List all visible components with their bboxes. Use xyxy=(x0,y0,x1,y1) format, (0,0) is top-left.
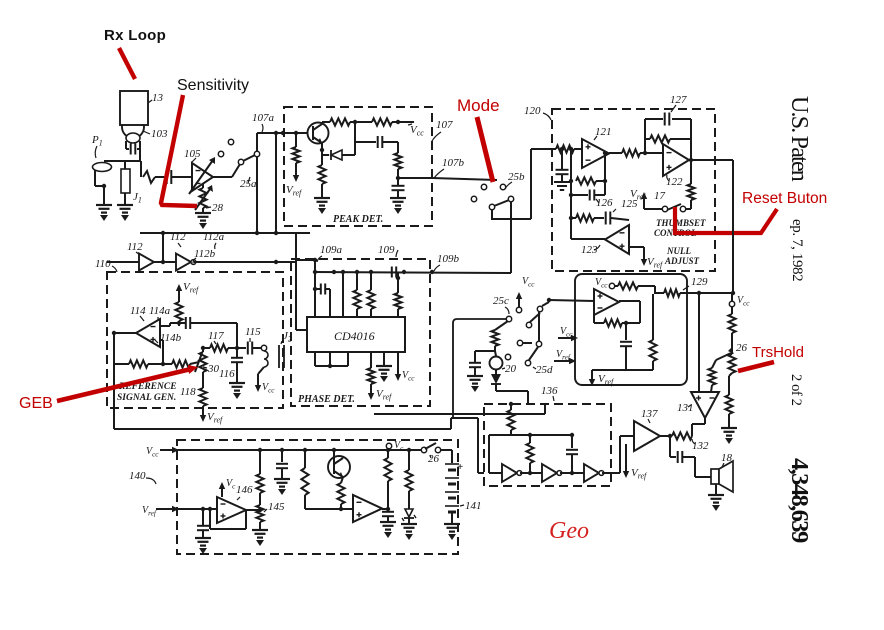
chip pin up 3 xyxy=(342,272,344,317)
Vref arrow 129 xyxy=(591,373,593,382)
red leader line from Rx Loop to loop antenna xyxy=(119,48,135,79)
svg-text:26: 26 xyxy=(428,453,440,465)
feedback resistor 122 xyxy=(645,138,650,140)
pot 30 wiper arrow xyxy=(195,353,202,372)
wire xyxy=(731,333,733,354)
wire xyxy=(383,141,398,143)
svg-text:120: 120 xyxy=(524,105,541,117)
svg-text:122: 122 xyxy=(666,176,683,188)
svg-text:137: 137 xyxy=(641,408,658,420)
jack J2 bracket xyxy=(278,345,280,368)
diode D107 xyxy=(322,154,329,156)
resistor 117 xyxy=(203,347,210,349)
resistor 118 xyxy=(202,372,204,388)
rounded box 129 xyxy=(575,274,687,385)
wire with break squiggle to amp xyxy=(140,161,142,177)
wire 25a up to 107a node xyxy=(256,133,258,151)
wire Vref to 146 xyxy=(177,508,217,510)
red leader TrsHold to pot 26 xyxy=(738,362,774,371)
pot 30 xyxy=(202,348,204,352)
resistor column b xyxy=(304,450,306,468)
left chip wire xyxy=(296,329,307,331)
bus to 136 xyxy=(374,413,545,415)
svg-text:125: 125 xyxy=(621,198,638,210)
bottom row resistor 1 xyxy=(114,363,129,365)
svg-text:140: 140 xyxy=(129,470,146,482)
jack coil xyxy=(261,345,266,350)
wire out of 136 xyxy=(602,472,620,474)
svg-text:Sensitivity: Sensitivity xyxy=(177,77,249,94)
switch 26 battery xyxy=(421,447,426,452)
wire node to 129 xyxy=(549,300,594,301)
storage capacitor xyxy=(392,185,405,187)
cap 109b xyxy=(391,267,393,278)
svg-text:141: 141 xyxy=(465,500,482,512)
Vref arrow peak det xyxy=(295,163,297,178)
svg-text:145: 145 xyxy=(268,501,285,513)
wire amp out xyxy=(213,176,232,178)
chip pin up 2 xyxy=(329,289,331,317)
wire 123 output to rail xyxy=(571,238,605,240)
node at P1 ground xyxy=(102,184,106,188)
wire 123 plus input xyxy=(629,246,644,248)
Vcc bus in 140 xyxy=(177,449,424,451)
cap column xyxy=(281,450,283,462)
shunt capacitor xyxy=(469,362,481,364)
svg-text:112b: 112b xyxy=(194,248,216,260)
lower resistor 129 xyxy=(652,294,654,340)
red leader Mode to switch 25b xyxy=(477,117,493,182)
svg-text:18: 18 xyxy=(721,452,733,464)
input wire to 121 xyxy=(531,148,556,150)
pot 26 resistor xyxy=(728,354,735,373)
switch 25c pole xyxy=(506,316,511,321)
svg-text:26: 26 xyxy=(736,342,748,354)
wire xyxy=(350,121,372,123)
svg-text:110: 110 xyxy=(95,258,111,270)
wire to P1 plug xyxy=(139,149,141,161)
left rail down xyxy=(113,333,115,429)
buffer 112b second xyxy=(176,254,191,271)
svg-text:NULL: NULL xyxy=(666,246,691,256)
wire 137 out xyxy=(660,435,672,437)
cap 114a xyxy=(160,325,170,327)
input shunt cap xyxy=(560,147,564,151)
ground under zener xyxy=(401,523,417,525)
inverter 1 xyxy=(488,464,490,473)
pullup resistor b xyxy=(370,272,372,290)
op-amp 114 pointing left xyxy=(136,319,160,347)
resistor below 122 output xyxy=(690,160,692,184)
wire across to op 131 rail xyxy=(687,292,733,294)
ground center peak det xyxy=(314,197,330,199)
cap below c xyxy=(387,509,389,511)
phase det dashed box xyxy=(291,259,430,406)
ground lower right xyxy=(721,427,737,429)
feedback 146 xyxy=(245,510,247,529)
wire buffer out xyxy=(180,261,182,263)
coupling cap to speaker xyxy=(669,436,671,457)
node xyxy=(353,120,357,124)
switch 25a arm xyxy=(243,155,255,161)
dashed box 110 xyxy=(107,272,283,408)
red leader line Sensitivity to pot 28 xyxy=(161,95,197,206)
op-amp 140b xyxy=(353,495,382,522)
svg-text:112: 112 xyxy=(127,241,143,253)
input network 123 xyxy=(571,217,576,219)
drop to phase det xyxy=(295,233,297,330)
wire xyxy=(728,414,730,428)
svg-text:30: 30 xyxy=(207,363,220,375)
wire xyxy=(731,307,733,314)
wire 114 plus input xyxy=(160,339,163,341)
wire wiper to resistor xyxy=(712,360,716,368)
node 122 out xyxy=(689,158,693,162)
Vcc arrow into 140 xyxy=(160,449,175,451)
Vref arrow at 17 xyxy=(644,208,662,210)
svg-text:4,348,639: 4,348,639 xyxy=(786,458,813,543)
svg-text:107: 107 xyxy=(436,119,453,131)
svg-text:ADJUST: ADJUST xyxy=(664,256,700,266)
svg-text:129: 129 xyxy=(691,276,708,288)
dashed box 120 xyxy=(552,109,715,271)
chassis ground under cap xyxy=(554,181,570,183)
feedback loop 129 xyxy=(619,300,640,302)
op-amp 122 xyxy=(663,144,689,176)
svg-text:Reset Buton: Reset Buton xyxy=(742,190,827,207)
svg-text:114: 114 xyxy=(130,305,146,317)
series capacitor into amp 105 xyxy=(166,170,168,184)
svg-text:CD4016: CD4016 xyxy=(334,329,375,343)
red leader GEB to pot 30 xyxy=(57,369,191,401)
pot 28 wiper arrow xyxy=(195,189,210,210)
wire xyxy=(397,191,399,198)
wire down to op131 plus xyxy=(698,293,700,392)
buffer 112 first xyxy=(139,254,154,271)
svg-text:107b: 107b xyxy=(442,157,465,169)
chip pin down 3 xyxy=(347,352,349,366)
red leader Reset to switch 17 xyxy=(675,207,777,233)
feed into 136 xyxy=(477,418,479,473)
lower cap 129 xyxy=(625,323,627,340)
peak detector dashed box xyxy=(284,107,432,226)
resistor 132 xyxy=(672,432,692,439)
svg-text:Geo: Geo xyxy=(549,518,589,544)
node 107a wire xyxy=(257,132,307,134)
coupling cap top xyxy=(315,288,320,290)
wire 114 output xyxy=(114,332,136,334)
svg-text:GEB: GEB xyxy=(19,395,53,412)
resistor above 20 xyxy=(491,330,498,346)
dashed box 136 xyxy=(484,404,611,486)
wire xyxy=(574,148,582,150)
op131 output wire xyxy=(704,418,706,424)
wire 25c to resistor xyxy=(495,321,508,330)
transistor 140 internals xyxy=(333,460,335,474)
ground under pot 28 xyxy=(202,208,204,213)
emitter resistor xyxy=(318,165,325,184)
chip pin up 1 xyxy=(314,260,316,317)
switch 25d upper xyxy=(517,340,522,345)
svg-text:25c: 25c xyxy=(493,295,509,307)
op-amp 105 xyxy=(192,163,213,191)
svg-text:107a: 107a xyxy=(252,112,275,124)
op-amp 121 xyxy=(582,139,609,168)
transistor Q107 circle xyxy=(308,123,329,144)
ground under 116 xyxy=(229,382,245,384)
capacitor 127 xyxy=(664,113,666,126)
jack J1 body xyxy=(121,169,130,193)
resistor mid 136 xyxy=(529,435,531,443)
wire battery to ground xyxy=(451,512,453,524)
wire switch to battery xyxy=(440,449,452,451)
svg-text:109b: 109b xyxy=(437,253,460,265)
feedback cap 126 xyxy=(571,194,588,196)
wire to Vcc corner xyxy=(392,121,414,123)
resistor 145 xyxy=(256,505,263,522)
feedback rail 121 xyxy=(570,149,572,239)
pot 26 wiper arrow xyxy=(716,353,731,360)
ground under J1 xyxy=(117,204,133,206)
left bias resistor xyxy=(295,133,297,147)
svg-text:136: 136 xyxy=(541,385,558,397)
resistor vertical xyxy=(394,153,401,169)
switch 25b arm xyxy=(494,200,509,206)
speaker 18 xyxy=(711,469,719,484)
svg-text:PHASE DET.: PHASE DET. xyxy=(298,394,355,405)
svg-text:118: 118 xyxy=(180,386,196,398)
svg-text:25d: 25d xyxy=(536,364,553,376)
cap branch wire xyxy=(354,122,356,142)
svg-text:109a: 109a xyxy=(320,244,343,256)
resistor column a xyxy=(259,450,261,474)
op-amp 123 pointing left xyxy=(605,225,629,254)
cap 125 xyxy=(605,212,607,225)
bottom wire 129 xyxy=(592,369,653,371)
Vref arrow under 123 xyxy=(643,251,645,262)
svg-text:127: 127 xyxy=(670,94,687,106)
node xyxy=(396,120,400,124)
resistor column c xyxy=(387,450,389,458)
Vcc feed 129 xyxy=(609,283,614,288)
svg-text:U.S. Paten: U.S. Paten xyxy=(786,96,812,182)
Vcc arrow under coil xyxy=(258,367,264,374)
Vref top of 110 xyxy=(178,288,180,296)
cap 116 xyxy=(236,323,238,357)
node on 136 top xyxy=(509,402,513,406)
op-amp 146 xyxy=(217,497,246,523)
svg-text:117: 117 xyxy=(208,330,224,342)
connector P1 ellipse xyxy=(93,163,112,172)
resistor to Vcc xyxy=(372,118,392,125)
pullup resistor c xyxy=(397,278,399,293)
cap 127 feedback loop wires xyxy=(644,119,646,153)
pot 28 under 105 xyxy=(202,184,204,188)
phase resistor down xyxy=(370,352,372,368)
wire loop terminals xyxy=(125,141,127,149)
cap and ground at 146 input xyxy=(202,509,204,525)
wire drop from 25a xyxy=(275,133,277,233)
rail 109b wire xyxy=(315,272,511,273)
svg-text:109: 109 xyxy=(378,244,395,256)
loop ferrite bump xyxy=(126,133,140,143)
svg-text:25b: 25b xyxy=(508,171,525,183)
ground at shunt cap xyxy=(474,368,476,376)
gain arrow across 105 xyxy=(189,160,213,194)
svg-text:17: 17 xyxy=(654,190,666,202)
chip pin down 1 xyxy=(314,352,316,366)
rail 109a xyxy=(296,259,315,261)
wire 122 output to right rail xyxy=(689,159,733,161)
svg-text:2 of 2: 2 of 2 xyxy=(788,374,804,406)
wire diode to 136 xyxy=(495,384,497,391)
svg-text:SIGNAL GEN.: SIGNAL GEN. xyxy=(117,393,176,403)
svg-text:TrsHold: TrsHold xyxy=(752,344,804,361)
svg-text:103: 103 xyxy=(151,128,168,140)
resistor column d xyxy=(408,450,410,470)
wire 25c to left rail xyxy=(453,319,506,418)
capacitor 107 internal xyxy=(377,136,379,148)
dashed box 140 xyxy=(177,440,458,554)
wire to ground xyxy=(103,186,105,205)
wire 146 out xyxy=(246,509,260,511)
Vcc tap circle xyxy=(729,301,734,306)
svg-text:+: + xyxy=(457,461,463,473)
bottom bus wire xyxy=(114,428,451,430)
bottom row resistor 2 xyxy=(172,360,190,367)
op-amp in 129 xyxy=(594,289,619,315)
op-amp 131 pointing down xyxy=(691,392,719,418)
cap 136 xyxy=(571,435,573,448)
svg-text:ep. 7, 1982: ep. 7, 1982 xyxy=(789,219,805,281)
svg-text:115: 115 xyxy=(245,326,261,338)
wire between buffers xyxy=(154,261,176,263)
svg-text:13: 13 xyxy=(152,92,164,104)
svg-text:121: 121 xyxy=(595,126,612,138)
collector wire up xyxy=(321,122,323,124)
Vcc arrow under chip xyxy=(397,352,399,377)
Vref arrow under 118 xyxy=(202,406,204,418)
feedback resistor 121 xyxy=(576,177,596,184)
wire drop from 25a contact xyxy=(256,156,258,233)
cap 115 xyxy=(237,347,246,349)
Vc arrow at 146 xyxy=(221,486,223,497)
inner wire 136 xyxy=(489,434,574,436)
bus 233 xyxy=(140,232,310,234)
svg-text:Mode: Mode xyxy=(457,96,500,115)
detector lamp 20 xyxy=(495,351,496,356)
Vref arrow at 137 xyxy=(625,452,627,474)
Vcc arrow 25c xyxy=(518,296,520,307)
loop core circle 103 xyxy=(122,116,144,138)
transistor base wire xyxy=(333,450,335,460)
feedback resistor 129 xyxy=(604,319,622,326)
svg-text:20: 20 xyxy=(505,363,517,375)
svg-text:132: 132 xyxy=(692,440,709,452)
diode below 20 xyxy=(495,370,497,374)
emitter resistor 140 xyxy=(341,477,343,483)
wire J1 to ground xyxy=(124,193,126,205)
thumbset switch 17 xyxy=(662,206,667,211)
wire from P1 down xyxy=(94,170,96,186)
svg-text:PEAK DET.: PEAK DET. xyxy=(333,214,383,225)
Rx coil box 13 xyxy=(120,91,148,125)
inverter 3 xyxy=(560,472,584,474)
pullup resistor a xyxy=(356,272,358,290)
transistor 140 circle xyxy=(328,456,350,478)
resistor to op131 minus xyxy=(708,368,715,385)
transistor Q107 internals xyxy=(312,126,314,140)
resistor 129 to node xyxy=(655,292,664,294)
svg-text:Rx Loop: Rx Loop xyxy=(104,27,166,44)
battery 141 xyxy=(445,463,459,465)
svg-text:114a: 114a xyxy=(149,305,171,317)
emitter node xyxy=(320,148,324,152)
resistor in collector line xyxy=(330,118,350,125)
switch 25b contacts xyxy=(481,184,486,189)
svg-text:THUMBSET: THUMBSET xyxy=(656,218,706,228)
drop to buffer node xyxy=(162,233,164,262)
inverter 2 xyxy=(520,472,542,474)
svg-text:28: 28 xyxy=(212,202,224,214)
svg-text:146: 146 xyxy=(236,484,253,496)
wire pot bottom down xyxy=(729,373,732,376)
ground under chip xyxy=(383,352,385,366)
switch 25c arm xyxy=(526,322,531,327)
resistor top 136 xyxy=(510,404,512,410)
ground under P1 xyxy=(96,204,112,206)
input resistor 121 xyxy=(556,145,574,152)
wire into buffers xyxy=(107,261,139,263)
svg-text:105: 105 xyxy=(184,148,201,160)
wire 121 out xyxy=(609,152,622,154)
zener 140 xyxy=(405,509,413,517)
capacitor at loop output xyxy=(130,144,132,155)
switch 25d lower xyxy=(505,354,510,359)
chip pin down 2 xyxy=(329,352,331,366)
output wire 107b xyxy=(398,177,432,179)
resistor below Vref xyxy=(178,296,180,302)
resistor below Vcc tap xyxy=(728,314,735,333)
ground right peak det xyxy=(390,197,406,199)
switch 25c throw upper xyxy=(547,298,551,302)
wire op140b out xyxy=(382,508,388,510)
label Vc at switch xyxy=(386,443,391,448)
coupling resistor to 122 xyxy=(622,149,640,156)
wire below 25b xyxy=(492,209,531,219)
wire xyxy=(321,184,323,198)
branch to shunt cap xyxy=(494,346,496,351)
ground under speaker xyxy=(715,484,717,495)
ground under 145 xyxy=(252,529,268,531)
wire 25b down to 109b rail xyxy=(530,149,532,219)
bottom wire xyxy=(315,365,348,367)
node output 107b xyxy=(396,176,400,180)
CD4016 chip box xyxy=(307,317,405,352)
ground under battery xyxy=(444,523,460,525)
Vref arrow phase det xyxy=(370,387,372,396)
resistor lower right xyxy=(725,395,732,414)
Vref arrow into 140 xyxy=(156,508,175,510)
buffer 137 xyxy=(634,421,660,451)
wire to op amp b xyxy=(305,508,353,510)
mode switch 25a contacts xyxy=(218,151,223,156)
svg-text:116: 116 xyxy=(219,368,235,380)
svg-text:131: 131 xyxy=(677,402,694,414)
